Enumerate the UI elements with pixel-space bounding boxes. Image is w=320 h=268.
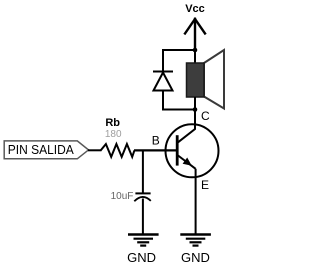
svg-text:E: E (201, 178, 209, 192)
capacitor C1 curved plate (134, 197, 151, 201)
wire speaker bottom lead (194, 97, 196, 110)
ground GND left symbol (128, 235, 159, 246)
svg-text:10uF: 10uF (111, 191, 134, 202)
speaker LS1 horn (204, 50, 224, 109)
junction node C (193, 107, 198, 112)
svg-text:GND: GND (127, 250, 156, 265)
wire speaker top lead (194, 50, 196, 63)
svg-text:GND: GND (181, 250, 210, 265)
transistor Q1 circle (166, 124, 219, 177)
capacitor C1 top plate (135, 192, 150, 194)
wire base lead (134, 149, 177, 151)
transistor Q1 emitter arrow (183, 158, 192, 166)
wire collector lead (178, 110, 195, 143)
svg-text:PIN SALIDA: PIN SALIDA (8, 142, 74, 157)
wire bottom rail (162, 109, 195, 111)
ground GND right symbol (180, 235, 211, 246)
svg-text:Vcc: Vcc (185, 3, 205, 15)
wire capacitor branch (142, 150, 144, 193)
wire flag to resistor (88, 149, 102, 151)
speaker LS1 body (187, 63, 205, 97)
transistor Q1 emitter (178, 156, 196, 169)
svg-text:180: 180 (105, 129, 122, 140)
diode D1 (153, 72, 173, 91)
transistor Q1 base bar (176, 135, 179, 165)
wire emitter to ground (195, 169, 197, 234)
power Vcc arrow symbol (185, 19, 205, 50)
flag PIN SALIDA (4, 141, 88, 159)
junction top node (193, 48, 198, 53)
resistor Rb (101, 144, 135, 157)
svg-text:B: B (152, 134, 160, 148)
svg-text:C: C (201, 109, 210, 123)
wire diode anode branch (162, 91, 164, 111)
wire diode cathode branch (162, 49, 164, 72)
wire top rail (162, 49, 195, 51)
wire capacitor to ground (142, 199, 144, 234)
svg-text:Rb: Rb (105, 117, 120, 129)
